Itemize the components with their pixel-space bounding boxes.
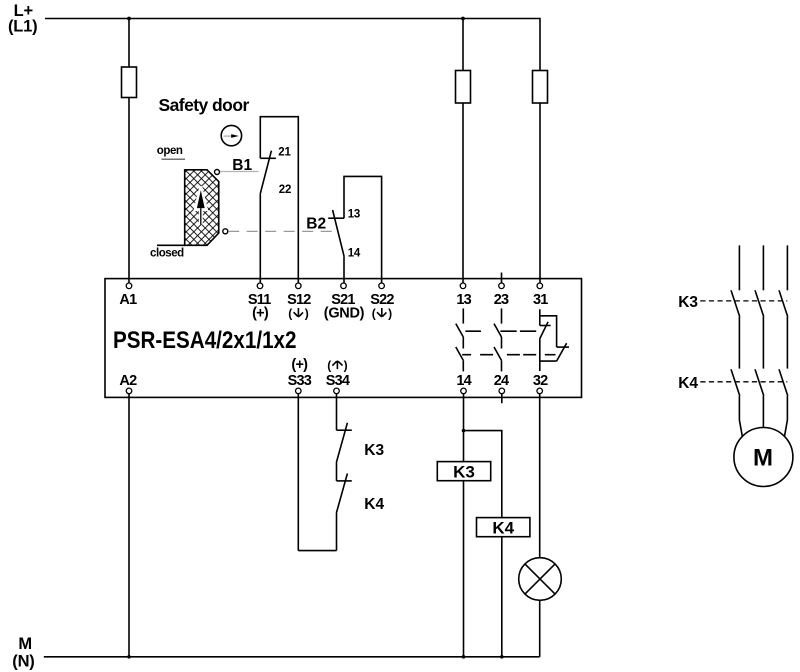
terminal S12 (287, 283, 311, 320)
wire top supply rail L+ (45, 18, 540, 20)
wire A2 to bottom rail (128, 394, 130, 657)
contact K4 crossbar (337, 480, 352, 482)
wire K3 to K4 contact (336, 462, 338, 481)
safety door (hatched) (185, 170, 219, 246)
svg-text:(N): (N) (12, 652, 34, 670)
wire stub above terminal 23 (501, 273, 503, 284)
wire 13-14 mid (462, 337, 464, 349)
wire fuse F1 to terminal A1 (128, 98, 130, 284)
junction L+/A1 (127, 17, 131, 21)
mechanical link dashes row 2 (462, 354, 555, 356)
wire 31 branch step (540, 316, 557, 347)
motor M1 (734, 428, 793, 487)
svg-text:(: ( (372, 306, 376, 320)
contact B1 fixed crossbar (260, 157, 276, 159)
svg-text:): ) (305, 306, 309, 320)
junction 14 branch (462, 429, 466, 433)
relay coil K3 (437, 462, 490, 482)
wire 23 to contact (501, 308, 503, 323)
wire 24 stub (501, 394, 503, 404)
wire contactor phase 1 top (738, 245, 740, 290)
svg-text:Safety door: Safety door (159, 95, 250, 115)
wire lamp to bottom rail (539, 600, 541, 657)
wire fuse F3 to terminal 31 (539, 103, 541, 283)
wire contact to 24 (501, 360, 503, 371)
wire bottom rail M (44, 656, 540, 658)
svg-text:31: 31 (533, 292, 548, 308)
svg-text:K3: K3 (678, 294, 698, 311)
junction L+/13 (461, 17, 465, 21)
svg-text:closed: closed (150, 247, 184, 259)
wire 31-32 return (540, 360, 557, 362)
contact 23-24 upper blade (494, 324, 502, 337)
svg-text:B2: B2 (306, 215, 326, 232)
svg-text:open: open (157, 145, 183, 157)
contact 23-24 lower blade (494, 347, 502, 360)
wire B2 to terminal S21 (343, 257, 345, 283)
relay coil K4 (477, 518, 530, 538)
svg-text:K4: K4 (364, 496, 384, 513)
mechanical link dashes row 1 (465, 330, 536, 332)
wire L+ to fuse F1 (128, 19, 130, 68)
svg-text:S33: S33 (288, 373, 312, 389)
wire 14 to bottom rail (463, 394, 465, 657)
contact 13-14 lower blade (456, 347, 464, 360)
svg-text:): ) (388, 306, 392, 320)
terminal S11 (248, 283, 271, 322)
svg-text:(+): (+) (252, 306, 269, 322)
wire S22 to B2 loop top (344, 176, 382, 283)
terminal 31 (533, 283, 548, 308)
svg-text:(: ( (327, 358, 331, 372)
relay U1 PSR-ESA4/2x1/1x2 body (105, 279, 582, 398)
wire phase 3 mid (786, 317, 788, 369)
terminal 32 (533, 373, 548, 394)
svg-text:(L1): (L1) (8, 18, 37, 36)
svg-text:B1: B1 (232, 157, 252, 174)
wire 32 to lamp (539, 394, 541, 558)
svg-text:M: M (18, 635, 32, 653)
contact 31-32 second crossbar (557, 346, 569, 348)
fuse F3 (533, 71, 548, 104)
contactor K3 pole 1 blade (731, 290, 740, 316)
svg-text:K4: K4 (678, 375, 698, 392)
wire L+ corner to fuse F3 (539, 18, 541, 71)
svg-text:24: 24 (494, 373, 509, 389)
fuse F1 (122, 67, 137, 98)
terminal A1 (119, 283, 137, 308)
wire B1 to terminal S11 (259, 194, 261, 283)
svg-text:K3: K3 (453, 462, 475, 481)
junction 14/rail (462, 655, 466, 659)
actuator symbol (221, 125, 241, 145)
wire phase 2 mid (762, 317, 764, 369)
closed position dashed line (228, 230, 334, 232)
open position line (220, 171, 259, 173)
terminal A2 (119, 373, 137, 394)
svg-text:S22: S22 (370, 292, 394, 308)
contact 13-14 upper blade (456, 324, 464, 337)
contact K3 blade (337, 423, 348, 462)
contactor K3 pole 3 blade (779, 290, 788, 316)
wire L+ to fuse F2 (462, 19, 464, 71)
contact K4 blade (337, 474, 348, 513)
contact 31-32 second blade (557, 343, 567, 361)
contactor K4 pole 3 blade (779, 369, 788, 395)
contact B1 blade (260, 151, 271, 194)
svg-text:(: ( (288, 306, 292, 320)
terminal 24 (494, 373, 509, 394)
terminal 23 (494, 283, 509, 308)
node L+ (L1) (8, 2, 37, 36)
svg-text:21: 21 (278, 146, 291, 158)
svg-text:23: 23 (494, 292, 509, 308)
wire 13 to contact (462, 308, 464, 323)
wire feedback bottom link (298, 550, 336, 552)
svg-text:13: 13 (348, 209, 360, 221)
terminal 14 (456, 373, 471, 394)
wire 31 to contact (539, 309, 541, 325)
svg-text:S12: S12 (287, 292, 311, 308)
wire S34 to contact K3 (336, 394, 338, 431)
junction K4/rail (500, 655, 504, 659)
contactor K3 link dashes (700, 300, 787, 302)
svg-text:22: 22 (279, 184, 291, 196)
terminal 13 (456, 283, 471, 308)
terminal S33 (288, 357, 312, 394)
svg-text:S34: S34 (326, 373, 350, 389)
contactor K3 pole 2 blade (755, 290, 764, 316)
wire branch to K4 coil (464, 431, 502, 657)
contact K3 crossbar (337, 429, 352, 431)
svg-text:K4: K4 (492, 518, 514, 537)
svg-text:32: 32 (533, 373, 548, 389)
terminal S34 (326, 358, 350, 393)
contactor K4 pole 1 blade (731, 369, 740, 395)
terminal S22 (370, 283, 394, 320)
wire phase 3 to motor (784, 396, 787, 437)
wire K4 to bottom link (336, 513, 338, 551)
label open (157, 145, 185, 159)
wire S12 to B1 loop top (260, 117, 298, 283)
svg-text:K3: K3 (364, 442, 384, 459)
wire phase 1 mid (738, 317, 740, 369)
svg-text:PSR-ESA4/2x1/1x2: PSR-ESA4/2x1/1x2 (113, 327, 297, 354)
contactor K4 link dashes (700, 381, 787, 383)
svg-text:A1: A1 (119, 292, 137, 308)
wire fuse F2 to terminal 13 (462, 103, 464, 283)
node M (N) (12, 635, 34, 671)
svg-text:(GND): (GND) (324, 306, 365, 322)
wire contactor phase 2 top (762, 245, 764, 290)
junction A2/rail (127, 655, 131, 659)
node door closed contact (223, 229, 228, 234)
wire phase 2 to motor (762, 396, 764, 428)
wire S33 down (297, 394, 299, 551)
svg-text:13: 13 (456, 292, 471, 308)
contact B2 blade (333, 210, 345, 257)
closed position line at door bottom (157, 244, 185, 246)
contact 31-32 first crossbar (540, 325, 551, 327)
svg-text:): ) (344, 358, 348, 372)
wire 31-32 mid (539, 339, 541, 371)
lamp H1 (519, 558, 562, 601)
fuse F2 (456, 71, 471, 104)
svg-text:M: M (753, 445, 773, 472)
svg-text:A2: A2 (119, 373, 137, 389)
contact B2 fixed crossbar (328, 217, 344, 219)
node door open contact (215, 170, 220, 175)
door direction arrow (195, 187, 206, 225)
contactor K4 pole 2 blade (755, 369, 764, 395)
svg-text:(+): (+) (291, 357, 308, 373)
contact 31-32 first blade (540, 322, 548, 339)
terminal S21 (324, 283, 365, 322)
wire 23-24 mid (501, 337, 503, 349)
svg-text:14: 14 (348, 248, 361, 260)
svg-text:14: 14 (456, 373, 471, 389)
wire phase 1 to motor (739, 396, 742, 437)
wire contact to 14 (462, 360, 464, 371)
wire contactor phase 3 top (786, 245, 788, 290)
